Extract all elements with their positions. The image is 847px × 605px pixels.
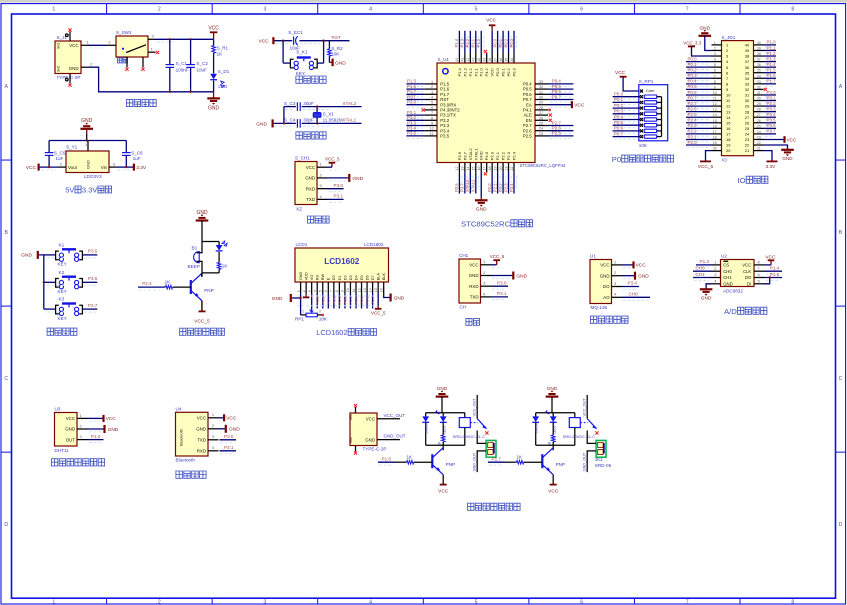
wire / net P1.3 (jd right pin 37): [764, 56, 777, 64]
svg-text:11: 11: [352, 288, 356, 292]
ground GND: [21, 251, 38, 259]
wire / net P0.3 (lcd pin 10): [348, 294, 353, 309]
net P1.0 pin3: [88, 434, 104, 443]
wire / net P0.4 (lcd pin 11): [354, 294, 359, 309]
wire / net P3.6: [47, 276, 98, 285]
ground GND pin2: [622, 272, 649, 280]
svg-text:32: 32: [745, 87, 750, 92]
svg-text:4: 4: [431, 96, 433, 100]
svg-text:SH2: SH2: [57, 66, 61, 72]
svg-text:8: 8: [431, 116, 433, 120]
svg-text:P3.7: P3.7: [767, 129, 777, 134]
net P1.3 pin1: [696, 259, 711, 268]
svg-text:P3.4: P3.4: [628, 281, 638, 286]
svg-text:XTAL1: XTAL1: [343, 118, 357, 123]
svg-text:VCC: VCC: [106, 416, 117, 422]
svg-text:34: 34: [757, 74, 761, 78]
svg-text:GND: GND: [723, 282, 733, 287]
svg-text:P2.6: P2.6: [688, 106, 698, 111]
MCU S_U1 STC89C52RC_LQFP44: [425, 53, 566, 172]
svg-text:S_CH1: S_CH1: [295, 156, 310, 161]
svg-text:26: 26: [745, 120, 750, 125]
wire / net P0.1 (lcd pin 8): [337, 294, 342, 309]
svg-text:GND: GND: [256, 122, 267, 128]
svg-text:P0.2: P0.2: [688, 68, 698, 73]
svg-text:P1.2: P1.2: [767, 51, 777, 56]
svg-text:AO: AO: [603, 295, 610, 300]
wire / net P3.5 (left pin 11): [406, 131, 424, 139]
svg-text:XTAL2: XTAL2: [343, 101, 357, 106]
svg-text:3: 3: [307, 290, 311, 292]
svg-text:D6: D6: [365, 275, 369, 280]
svg-text:14: 14: [466, 167, 470, 171]
svg-text:P2.0: P2.0: [688, 140, 698, 145]
svg-text:P1.1: P1.1: [471, 38, 476, 47]
wire / net P1.4 (top): [454, 31, 462, 53]
capacitor S_C5 1uF: [45, 141, 66, 168]
svg-text:30pF: 30pF: [303, 101, 314, 106]
svg-text:P0.7: P0.7: [614, 131, 624, 136]
svg-text:1: 1: [431, 80, 433, 84]
svg-text:K1: K1: [59, 243, 65, 248]
buzzer B1 BEEP: [188, 242, 203, 273]
wire / net XTAL2 (bottom): [465, 172, 473, 193]
svg-text:P2.6: P2.6: [320, 295, 325, 304]
svg-text:17: 17: [713, 130, 717, 134]
svg-text:33: 33: [757, 80, 761, 84]
wire / net XTAL1 (bottom): [471, 172, 479, 193]
svg-text:K3: K3: [59, 297, 65, 302]
svg-text:STC89C52RC_LQFP44: STC89C52RC_LQFP44: [520, 163, 566, 168]
svg-text:36: 36: [499, 58, 503, 62]
svg-text:D: D: [4, 522, 8, 528]
wire / net P3.6 (bottom): [454, 172, 462, 193]
wire / net P2.2 (bottom): [498, 172, 506, 193]
svg-text:38: 38: [745, 54, 750, 59]
svg-text:P2.7: P2.7: [326, 295, 331, 304]
svg-text:S_U1: S_U1: [438, 57, 450, 62]
svg-text:P2.4: P2.4: [688, 118, 698, 123]
EN stub cross: [549, 119, 552, 122]
power VCC pin1: [622, 261, 646, 268]
power VCC_5 (bottom left): [698, 151, 714, 170]
svg-text:A/D: A/D: [724, 307, 737, 316]
svg-text:1: 1: [296, 290, 300, 292]
relay switch arm: [470, 419, 488, 435]
svg-text:34: 34: [510, 58, 514, 62]
power VCC on EA pin: [548, 101, 585, 108]
relay switch arm: [580, 419, 598, 435]
wire / net P0.7: [613, 131, 640, 139]
svg-text:5V: 5V: [65, 186, 74, 195]
wire / net P3.4 (jd right): [764, 112, 777, 120]
svg-text:20: 20: [499, 167, 503, 171]
svg-text:CH0: CH0: [696, 266, 706, 271]
svg-text:P2.5: P2.5: [552, 131, 562, 136]
svg-text:2: 2: [714, 46, 716, 50]
svg-text:P3.6: P3.6: [767, 123, 777, 128]
svg-text:10: 10: [726, 93, 731, 98]
wire / net P1.6 (jd right pin 34): [764, 73, 777, 81]
wire S_J1 pin1 to switch: [89, 44, 107, 46]
wire / net P0.2 (lcd pin 9): [343, 294, 348, 309]
svg-text:P1.4: P1.4: [770, 266, 780, 271]
svg-text:GND_OUT: GND_OUT: [473, 452, 477, 471]
svg-text:A: A: [839, 84, 843, 90]
wire / net P2.0 (jd left pin 19): [686, 140, 712, 148]
svg-text:GND: GND: [365, 438, 375, 443]
P4.1 stub (red dot): [548, 109, 551, 112]
svg-text:4: 4: [313, 290, 317, 292]
svg-text:GND: GND: [394, 295, 405, 301]
svg-text:35: 35: [504, 58, 508, 62]
svg-text:40: 40: [745, 43, 750, 48]
svg-text:DO: DO: [745, 275, 752, 280]
wire / net P1.0 (top): [476, 31, 484, 53]
svg-text:39: 39: [757, 46, 761, 50]
svg-text:P0.3: P0.3: [614, 109, 624, 114]
svg-text:23: 23: [757, 135, 761, 139]
svg-text:P3.2: P3.2: [767, 101, 777, 106]
svg-text:P1.2: P1.2: [465, 38, 470, 47]
svg-text:GND: GND: [638, 274, 649, 280]
power VCC_5 pin15: [371, 294, 386, 316]
svg-text:KEY: KEY: [58, 289, 67, 294]
svg-text:3: 3: [264, 7, 267, 13]
wire / net P0.3 (top): [509, 31, 517, 53]
svg-text:35: 35: [745, 70, 750, 75]
svg-text:4: 4: [714, 58, 716, 62]
svg-text:3.3V: 3.3V: [136, 165, 147, 171]
svg-text:P3.1: P3.1: [497, 291, 507, 296]
wire VO to pot: [311, 294, 313, 311]
wire gnd rail: [39, 255, 44, 309]
sensor U3 DHT11: [55, 407, 88, 453]
svg-text:P0.7: P0.7: [688, 95, 698, 100]
capacitor S_C6 1uF: [122, 141, 143, 168]
svg-text:D4: D4: [354, 275, 358, 280]
svg-text:11.0592M: 11.0592M: [323, 117, 343, 122]
wire / net P0.6 (right): [548, 89, 573, 97]
svg-text:BLA: BLA: [377, 273, 381, 281]
svg-text:P0.3: P0.3: [348, 295, 353, 304]
wire / net P0.6 (jd left pin 10): [686, 90, 712, 98]
svg-text:36: 36: [745, 65, 750, 70]
svg-text:P3.3: P3.3: [767, 106, 777, 111]
svg-text:13: 13: [363, 288, 367, 292]
power VCC: [615, 70, 639, 91]
svg-text:19: 19: [713, 141, 717, 145]
connector CH1 (CH) serial port: [459, 253, 491, 309]
resistor 1K (led branch): [438, 422, 445, 445]
wire / net P1.2 (jd right pin 38): [764, 51, 777, 59]
svg-text:19: 19: [726, 143, 731, 148]
svg-text:6: 6: [431, 106, 433, 110]
svg-text:GND: GND: [305, 176, 315, 181]
svg-text:VCC_5: VCC_5: [490, 254, 505, 259]
svg-text:P1.1: P1.1: [767, 45, 777, 50]
wire / net P3.4 (left pin 10): [406, 126, 424, 134]
svg-text:P0.4: P0.4: [614, 114, 624, 119]
svg-text:VCC: VCC: [366, 417, 375, 422]
wire / net P2.6 (lcd pin 5): [320, 294, 325, 309]
button S_K1: [283, 41, 324, 76]
svg-text:16: 16: [477, 167, 481, 171]
ground GND (right pin16): [384, 294, 405, 302]
no ERC cross pin6: [422, 108, 425, 111]
svg-text:S_C6: S_C6: [131, 151, 143, 156]
svg-text:24: 24: [539, 127, 543, 131]
power VCC pin8: [765, 254, 776, 265]
svg-text:VCC: VCC: [197, 416, 206, 421]
power VCC_3.3: [683, 40, 711, 56]
power VCC (bottom): [548, 475, 559, 495]
power VCC pin1: [219, 414, 237, 421]
svg-text:P4.2: P4.2: [484, 67, 489, 76]
svg-text:3: 3: [431, 90, 433, 94]
svg-text:P1.6: P1.6: [382, 456, 392, 461]
power 3.3V (right): [117, 164, 147, 171]
wire P2.4 input: [138, 281, 165, 290]
svg-text:P3.0: P3.0: [407, 100, 417, 105]
svg-text:100nF: 100nF: [176, 67, 189, 72]
svg-text:CLK: CLK: [743, 269, 751, 274]
svg-text:VCC: VCC: [636, 263, 647, 269]
svg-text:S_C5: S_C5: [54, 151, 66, 156]
svg-text:P3.5: P3.5: [440, 134, 449, 139]
pin32 stub cross: [764, 88, 767, 91]
wire / net P0.5 (lcd pin 12): [359, 294, 364, 309]
svg-text:P3.5: P3.5: [88, 249, 98, 254]
svg-text:KEY: KEY: [296, 71, 305, 76]
LED S_D1: [210, 69, 230, 92]
svg-text:3: 3: [714, 52, 716, 56]
svg-text:23: 23: [539, 132, 543, 136]
svg-text:P0.1: P0.1: [501, 67, 506, 76]
wire / net P0.1: [613, 97, 640, 105]
svg-text:LED: LED: [218, 84, 228, 89]
svg-text:P2.2: P2.2: [688, 129, 698, 134]
capacitor S_C1 100nF: [166, 39, 189, 92]
svg-text:P1.3: P1.3: [460, 38, 465, 47]
power VCC_5 pin2 (bar): [303, 294, 310, 298]
svg-text:1uF: 1uF: [55, 156, 63, 161]
svg-text:IO: IO: [722, 158, 727, 163]
svg-text:38: 38: [757, 52, 761, 56]
wire left link: [283, 107, 285, 124]
svg-text:VCC_5: VCC_5: [371, 311, 386, 316]
wire / net P2.1 (bottom): [492, 172, 500, 193]
switch S_SW1: [107, 30, 160, 71]
svg-text:SH1: SH1: [349, 414, 353, 420]
ALE stub cross: [549, 114, 552, 117]
svg-text:29: 29: [757, 102, 761, 106]
wire top rail: [536, 412, 575, 414]
push button K1: [44, 243, 83, 267]
svg-text:P0.2: P0.2: [503, 38, 508, 47]
svg-text:P3.7: P3.7: [460, 183, 465, 192]
svg-text:12: 12: [455, 167, 459, 171]
svg-text:4: 4: [369, 600, 372, 605]
wire / net RST (left pin 4): [406, 94, 424, 102]
svg-text:37: 37: [493, 58, 497, 62]
wire / net P1.0 (jd right pin 40): [764, 40, 777, 48]
svg-text:XTAL1: XTAL1: [473, 148, 478, 161]
svg-text:10K: 10K: [319, 317, 328, 322]
svg-text:S_R2: S_R2: [331, 46, 343, 51]
svg-text:P1.3: P1.3: [700, 259, 710, 264]
power VCC_5 (bottom): [194, 300, 210, 324]
svg-text:5: 5: [475, 600, 478, 605]
wire / net P0.4: [613, 114, 640, 122]
svg-text:8: 8: [714, 80, 716, 84]
svg-text:TXD: TXD: [306, 197, 315, 202]
svg-text:GND_OUT: GND_OUT: [384, 434, 406, 439]
svg-text:P0.2: P0.2: [614, 103, 624, 108]
svg-text:P0.7: P0.7: [552, 94, 562, 99]
svg-text:42: 42: [466, 58, 470, 62]
svg-text:27: 27: [745, 115, 750, 120]
labels JK1 SRD-05: [595, 457, 612, 468]
svg-text:P1.3: P1.3: [462, 67, 467, 76]
svg-text:VCC_5: VCC_5: [325, 157, 340, 162]
svg-text:14: 14: [368, 288, 372, 292]
svg-text:VCC: VCC: [26, 165, 37, 171]
svg-text:P2.2: P2.2: [498, 183, 503, 192]
svg-text:P3.0: P3.0: [224, 434, 234, 439]
wire / net P0.3: [613, 109, 640, 117]
svg-text:U2: U2: [721, 254, 727, 259]
wire / net P1.1 (jd right pin 39): [764, 45, 777, 53]
svg-text:16: 16: [713, 124, 717, 128]
wire / net P3.0 (jd right): [764, 90, 777, 98]
svg-text:4: 4: [369, 7, 372, 13]
svg-text:P3.0: P3.0: [767, 90, 777, 95]
svg-text:32: 32: [539, 85, 543, 89]
wire / net P2.4 (bottom): [509, 172, 517, 193]
svg-text:17: 17: [726, 132, 731, 137]
wire / net P2.7 (lcd pin 6): [326, 294, 331, 309]
svg-text:CH: CH: [460, 304, 467, 309]
svg-text:RW: RW: [321, 274, 325, 281]
svg-text:SH1: SH1: [57, 43, 61, 49]
svg-text:P3.1: P3.1: [767, 95, 777, 100]
wire / net P2.7 (jd left pin 12): [686, 101, 712, 109]
svg-text:SRD-05: SRD-05: [595, 463, 612, 468]
svg-text:8: 8: [791, 7, 794, 13]
wire / net P2.7 (right): [548, 120, 573, 128]
transistor PNP (relay P1.6): [432, 445, 455, 474]
svg-text:28: 28: [757, 108, 761, 112]
transistor PNP (relay P1.7): [542, 445, 565, 474]
svg-text:11: 11: [713, 97, 717, 101]
connector S_CH1 (XZ): [295, 156, 328, 212]
svg-text:31: 31: [757, 91, 761, 95]
wire / net P0.1 (jd left pin 5): [686, 62, 712, 70]
svg-text:P1.0: P1.0: [479, 67, 484, 76]
svg-text:1: 1: [302, 310, 304, 314]
svg-text:6: 6: [714, 69, 716, 73]
svg-text:S_JD1: S_JD1: [722, 35, 736, 40]
wire / net P0.5 (right): [548, 84, 573, 92]
svg-text:P0.4: P0.4: [354, 295, 359, 304]
ground GND (left): [272, 294, 302, 315]
svg-text:10K: 10K: [639, 143, 648, 148]
svg-text:VCC_3.3: VCC_3.3: [683, 40, 701, 45]
net P1.5 pin6: [765, 272, 783, 281]
svg-text:GND: GND: [108, 427, 119, 433]
resistor 1K (led): [217, 252, 228, 273]
wire / net P0.2 (top): [503, 31, 511, 53]
wire / net P2.2 (jd left pin 17): [686, 129, 712, 137]
svg-text:P1.1: P1.1: [473, 67, 478, 76]
svg-text:GND: GND: [208, 106, 220, 112]
wire top rail: [426, 412, 465, 414]
svg-text:SRD-05VDC-SL-C: SRD-05VDC-SL-C: [563, 434, 595, 439]
svg-text:11: 11: [430, 132, 434, 136]
svg-text:12: 12: [713, 102, 717, 106]
svg-text:39: 39: [483, 58, 487, 62]
ground GND pin2: [88, 425, 119, 433]
svg-text:D5: D5: [360, 275, 364, 280]
svg-text:CH0: CH0: [629, 291, 639, 296]
svg-text:P0.1: P0.1: [614, 97, 624, 102]
wire VCC rail: [155, 38, 214, 40]
resistor 1K (base): [165, 279, 191, 289]
svg-text:7: 7: [330, 290, 334, 292]
svg-text:22: 22: [745, 143, 750, 148]
wire split rails: [202, 241, 219, 243]
svg-text:C: C: [4, 376, 8, 382]
svg-text:7: 7: [686, 7, 689, 13]
svg-text:D2: D2: [343, 275, 347, 280]
wire / net P1.7 (left pin 3): [406, 89, 424, 97]
svg-text:BEEP: BEEP: [188, 264, 200, 269]
svg-text:1: 1: [714, 41, 716, 45]
svg-text:D: D: [839, 522, 843, 528]
svg-text:5: 5: [319, 290, 323, 292]
net P1.4 pin7: [765, 266, 783, 275]
svg-text:GND: GND: [476, 206, 487, 212]
svg-text:13: 13: [726, 109, 731, 114]
svg-text:P0.5: P0.5: [688, 84, 698, 89]
svg-text:40: 40: [757, 41, 761, 45]
svg-text:P0.1: P0.1: [337, 295, 342, 304]
wire / net P1.6 (left pin 2): [406, 84, 424, 92]
wire / net P2.1 (jd left pin 18): [686, 134, 712, 142]
svg-text:VCC: VCC: [226, 416, 237, 422]
svg-text:XTAL2: XTAL2: [465, 179, 470, 192]
svg-text:RP1: RP1: [295, 317, 304, 322]
svg-text:P0.6: P0.6: [688, 90, 698, 95]
wire bottom row XTAL1: [274, 122, 362, 124]
wire / net P1.3 (top): [460, 31, 468, 53]
wire / net P0.4 (right): [548, 79, 573, 87]
svg-text:GND: GND: [69, 66, 79, 71]
svg-text:22: 22: [757, 141, 761, 145]
svg-text:VCC: VCC: [469, 263, 478, 268]
power VCC: [208, 26, 219, 40]
wire / net P1.4 (jd right pin 36): [764, 62, 777, 70]
svg-text:13: 13: [461, 167, 465, 171]
svg-text:D7: D7: [371, 275, 375, 280]
svg-text:P0.2: P0.2: [506, 67, 511, 76]
svg-text:GND: GND: [65, 427, 75, 432]
svg-text:25: 25: [539, 122, 543, 126]
svg-text:DI: DI: [747, 282, 751, 287]
wire / net P0.7 (right): [548, 94, 573, 102]
power VCC (top): [486, 18, 496, 53]
